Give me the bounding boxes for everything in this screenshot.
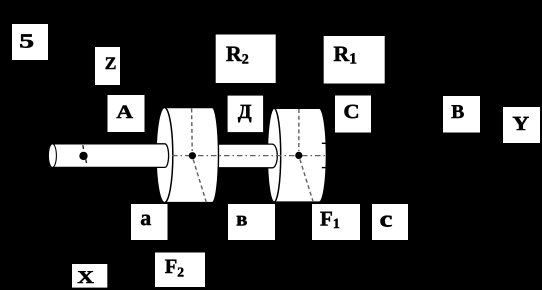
svg-text:B: B — [451, 102, 464, 123]
svg-text:в: в — [236, 207, 247, 231]
svg-text:Y: Y — [512, 113, 529, 135]
svg-text:c: c — [380, 206, 393, 231]
svg-text:A: A — [116, 102, 133, 123]
svg-text:5: 5 — [19, 31, 34, 53]
svg-text:Д: Д — [238, 101, 252, 123]
svg-text:Z: Z — [105, 53, 117, 73]
svg-text:C: C — [343, 101, 359, 123]
svg-text:X: X — [77, 267, 94, 287]
svg-text:a: a — [140, 205, 151, 230]
